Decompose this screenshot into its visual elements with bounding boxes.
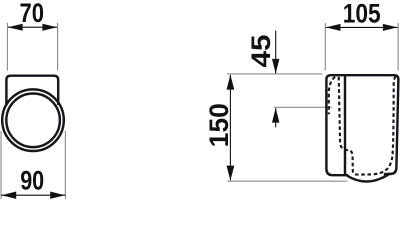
svg-text:70: 70 (20, 0, 45, 28)
dim line 90 (1, 194, 65, 196)
arrowhead 70 right (42, 24, 57, 31)
arrowhead 105 left (326, 24, 341, 31)
svg-text:90: 90 (20, 166, 44, 196)
holder side outline (326, 75, 398, 175)
ext line top (glass rim level, shared 150/45) (227, 73, 322, 75)
arrowhead 150 up (227, 75, 235, 90)
holder front edge line (344, 76, 346, 175)
ext line 90 right (64, 131, 66, 199)
ext line bottom (glass bottom level) (227, 180, 347, 182)
hidden line: glass wall (dashed) (339, 76, 396, 174)
arrowhead 90 right (50, 192, 65, 199)
dim line 105 (325, 26, 398, 28)
ext line 45 lower (holder top level) (274, 106, 332, 108)
ring outer circle (2, 89, 64, 151)
ext line 70 left (6, 23, 8, 71)
hidden line: ring rear edge (dashed) (329, 77, 335, 115)
arrowhead 45 down (272, 59, 279, 74)
ext line 105 right (397, 23, 399, 71)
dim 45 lower leader (275, 108, 277, 127)
svg-text:105: 105 (343, 0, 381, 28)
arrowhead 70 left (8, 24, 23, 31)
dim 45 upper leader (275, 31, 277, 74)
glass bottom arc (347, 173, 391, 181)
arrowhead 150 down (227, 166, 235, 181)
dim line 150 (229, 75, 231, 180)
arrowhead 105 right (383, 24, 398, 31)
ext line 70 right (57, 23, 59, 71)
svg-text:45: 45 (246, 35, 276, 68)
svg-text:150: 150 (204, 103, 234, 147)
ext line 90 left (0, 131, 2, 199)
arrowhead 45 up (272, 108, 279, 123)
ext line 105 left (324, 23, 326, 71)
ring inner circle (6, 94, 60, 148)
holder body outline (rounded top, open bottom) (6, 76, 58, 105)
dim line 70 (7, 26, 57, 28)
arrowhead 90 left (2, 192, 17, 199)
